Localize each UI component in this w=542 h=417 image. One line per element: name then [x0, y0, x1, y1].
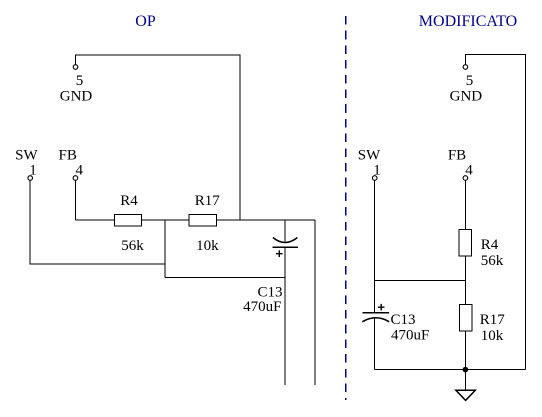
pin 5 terminal circle (OP)	[73, 65, 78, 70]
wire right branch down (OP)	[314, 220, 316, 385]
pin FB terminal circle (MOD)	[463, 176, 468, 181]
svg-text:GND: GND	[60, 88, 93, 104]
svg-text:10k: 10k	[481, 328, 504, 344]
wire R4 to R17 (MOD)	[464, 256, 466, 304]
svg-text:OP: OP	[135, 13, 156, 30]
wire SW to junction (OP)	[30, 180, 165, 264]
svg-text:5: 5	[466, 73, 474, 89]
wire bottom rail (MOD)	[375, 369, 526, 371]
wire SW down to C13 (MOD)	[374, 180, 376, 312]
wire R17 to right corner (OP)	[216, 219, 315, 221]
svg-text:R17: R17	[195, 193, 221, 209]
wire FB down to rail (OP)	[74, 180, 76, 220]
wire bottom link to C13 (OP)	[165, 276, 285, 278]
wire C13 top lead (OP)	[284, 220, 286, 242]
svg-text:SW: SW	[358, 148, 381, 164]
resistor R4 (MOD)	[459, 230, 472, 257]
capacitor C13 straight plate (MOD)	[363, 312, 389, 314]
svg-text:5: 5	[76, 73, 84, 89]
svg-text:470uF: 470uF	[391, 328, 429, 344]
capacitor C13 curved plate (OP)	[273, 238, 298, 243]
wire R17 down to bottom rail (MOD)	[464, 331, 466, 370]
pin SW terminal circle (OP)	[28, 176, 33, 181]
resistor R17 (OP)	[189, 215, 217, 227]
svg-text:470uF: 470uF	[243, 299, 281, 315]
svg-text:56k: 56k	[481, 253, 504, 269]
wire junction R4-R17 down (OP)	[164, 220, 166, 277]
svg-text:MODIFICATO: MODIFICATO	[419, 13, 517, 30]
pin 5 terminal circle (MOD)	[463, 65, 468, 70]
polarity plus sign (MOD)	[378, 304, 385, 311]
junction dot (MOD)	[463, 367, 469, 373]
svg-text:R17: R17	[480, 312, 506, 328]
wire GND net top (MOD)	[465, 55, 525, 370]
svg-text:C13: C13	[257, 284, 282, 300]
wire link SW branch to divider junction (MOD)	[375, 279, 466, 281]
svg-text:R4: R4	[120, 193, 138, 209]
svg-text:FB: FB	[59, 148, 77, 164]
divider dashed line	[345, 16, 347, 400]
svg-text:FB: FB	[448, 148, 466, 164]
wire C13 bottom lead (MOD)	[374, 318, 376, 370]
svg-text:R4: R4	[481, 237, 499, 253]
svg-text:GND: GND	[450, 88, 483, 104]
svg-text:56k: 56k	[121, 238, 144, 254]
resistor R4 (OP)	[114, 215, 141, 227]
svg-text:10k: 10k	[196, 238, 219, 254]
ground symbol (MOD)	[456, 390, 475, 400]
resistor R17 (MOD)	[459, 304, 472, 331]
wire FB down to R4 (MOD)	[464, 180, 466, 229]
polarity plus sign (OP)	[276, 250, 283, 257]
capacitor C13 curved plate (MOD)	[362, 318, 389, 322]
wire ground stub (MOD)	[464, 370, 466, 391]
pin FB terminal circle (OP)	[73, 176, 78, 181]
svg-text:SW: SW	[15, 148, 38, 164]
wire C13 bottom lead (OP)	[284, 248, 286, 385]
svg-text:C13: C13	[391, 312, 416, 328]
capacitor C13 straight plate (OP)	[273, 246, 299, 248]
wire GND net top (OP)	[76, 55, 240, 220]
pin SW terminal circle (MOD)	[372, 176, 377, 181]
wire rail FB to R4 (OP)	[75, 219, 114, 221]
wire R4 to R17 (OP)	[142, 219, 189, 221]
